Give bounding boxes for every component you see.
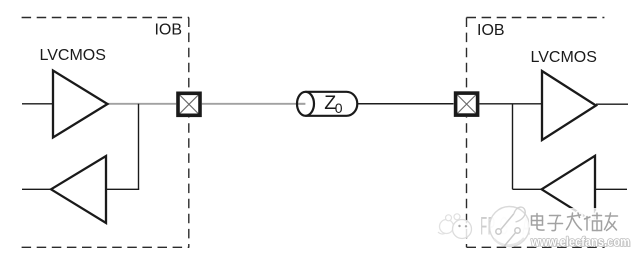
svg-text:IOB: IOB	[477, 22, 505, 39]
wire: right pad to input buffer (right box)	[479, 103, 542, 105]
svg-text:LVCMOS: LVCMOS	[40, 47, 106, 64]
wire: left fabric input to output buffer	[22, 103, 53, 105]
wire: gray net from left pad to transmission line	[202, 103, 306, 105]
buffer U2: LVCMOS input buffer (left box, points left)	[51, 156, 106, 223]
wire: vertical junction stub to output buffer (right box)	[512, 104, 514, 190]
svg-text:F: F	[480, 213, 487, 241]
value label Z0	[324, 92, 343, 116]
svg-text:LVCMOS: LVCMOS	[531, 49, 597, 66]
buffer U4: LVCMOS output buffer (right box, points left)	[542, 156, 595, 223]
pad P2: right IOB pad (square with X)	[454, 91, 480, 117]
svg-text:www.elecfans.com: www.elecfans.com	[530, 235, 630, 249]
watermark backdrop glow	[526, 208, 626, 235]
wire: transmission line to right pad	[358, 103, 454, 105]
watermark mascot	[438, 214, 472, 239]
watermark url www.elecfans.com	[530, 235, 631, 250]
buffer U1: LVCMOS output buffer (left box, points right)	[53, 71, 108, 138]
wire: input buffer input horizontal (left box)	[106, 188, 139, 190]
watermark ghost text FPGA	[480, 213, 530, 241]
wire: gray net from output buffer apex to left pad	[107, 103, 177, 105]
wire: input buffer output to right fabric	[596, 103, 628, 105]
buffer U3: LVCMOS input buffer (right box, points right)	[542, 71, 596, 140]
watermark logo circle	[490, 207, 530, 247]
IOB box left (dashed, open on left side)	[22, 18, 190, 248]
svg-text:0: 0	[335, 100, 343, 116]
wire: right fabric to output buffer input	[595, 188, 627, 190]
IOB box right (dashed, open on right side)	[467, 18, 605, 248]
transmission line Z0 (cylinder)	[297, 92, 357, 116]
svg-text:IOB: IOB	[154, 22, 182, 39]
wire: output buffer apex feed (right box)	[513, 188, 542, 190]
pad P1: left IOB pad (square with X)	[176, 92, 202, 118]
wire: input buffer output to left fabric	[22, 188, 52, 190]
wire: vertical junction stub to input buffer (left box)	[138, 104, 140, 190]
